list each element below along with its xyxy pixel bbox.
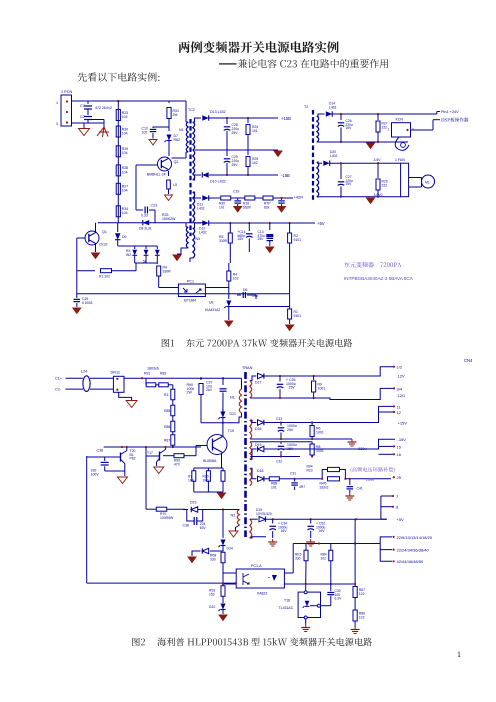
svg-text:330R: 330R (219, 239, 228, 243)
svg-text:D9: D9 (122, 235, 127, 239)
svg-text:25V: 25V (346, 182, 353, 186)
svg-text:L499: L499 (366, 478, 374, 482)
svg-text:D16: D16 (255, 427, 261, 431)
svg-text:C33: C33 (276, 417, 282, 421)
svg-text:25V: 25V (287, 428, 294, 432)
svg-text:N1: N1 (230, 396, 235, 400)
svg-text:C2-: C2- (55, 388, 62, 392)
svg-text:L432: L432 (329, 105, 337, 109)
svg-text:12V: 12V (398, 374, 405, 379)
svg-text:42/44/46/48/50: 42/44/46/48/50 (397, 559, 424, 564)
svg-text:DR11: DR11 (111, 371, 120, 375)
svg-text:101: 101 (219, 205, 225, 209)
svg-text:3.6V: 3.6V (374, 158, 382, 162)
svg-text:101: 101 (252, 129, 258, 133)
svg-text:D13 L432: D13 L432 (210, 110, 226, 114)
svg-text:104: 104 (122, 211, 128, 215)
svg-text:0.33: 0.33 (141, 214, 148, 218)
svg-text:C2: C2 (80, 115, 85, 119)
svg-text:D18: D18 (257, 469, 263, 473)
svg-text:TL431AC: TL431AC (279, 606, 294, 610)
svg-text:CN4: CN4 (464, 358, 473, 363)
svg-text:D6: D6 (243, 288, 247, 292)
svg-text:EP1384: EP1384 (184, 299, 196, 303)
svg-text:25V: 25V (289, 386, 296, 390)
svg-text:T18: T18 (284, 599, 290, 603)
svg-text:6.3V: 6.3V (335, 596, 343, 600)
svg-text:222: 222 (382, 125, 388, 129)
svg-text:M1: M1 (425, 181, 430, 185)
svg-text:C32: C32 (276, 460, 282, 464)
svg-text:D21: D21 (230, 412, 236, 416)
svg-text:562R: 562R (243, 205, 252, 209)
svg-text:C7: C7 (80, 104, 85, 108)
svg-text:R3: R3 (164, 393, 168, 397)
svg-text:TRAN: TRAN (242, 366, 253, 370)
svg-text:102: 102 (359, 616, 365, 620)
svg-text:2kV: 2kV (206, 388, 213, 392)
svg-text:1: 1 (56, 101, 58, 105)
svg-text:1XYSL520: 1XYSL520 (256, 512, 272, 516)
svg-text:25V: 25V (287, 447, 294, 451)
svg-text:104: 104 (122, 131, 128, 135)
svg-text:Pin1 +24V: Pin1 +24V (441, 110, 459, 114)
svg-text:104: 104 (122, 151, 128, 155)
svg-text:1R0: 1R0 (203, 478, 209, 482)
svg-text:W2: W2 (126, 253, 131, 257)
svg-text:16V: 16V (281, 529, 288, 533)
svg-text:C38: C38 (183, 524, 189, 528)
svg-text:CK32: CK32 (99, 243, 108, 247)
svg-text:82k: 82k (264, 205, 270, 209)
svg-text:R83: R83 (160, 372, 166, 376)
svg-text:1803x6: 1803x6 (147, 367, 159, 371)
svg-text:25: 25 (397, 475, 402, 480)
svg-text:102: 102 (252, 161, 258, 165)
svg-text:R91: R91 (144, 372, 150, 376)
svg-text:Q2: Q2 (174, 160, 179, 164)
svg-text:102: 102 (233, 277, 239, 281)
svg-text:D22: D22 (209, 605, 215, 609)
svg-text:L432: L432 (197, 207, 205, 211)
svg-text:222: 222 (382, 183, 388, 187)
svg-text:+15V: +15V (398, 420, 408, 425)
svg-text:1001: 1001 (316, 431, 324, 435)
svg-text:R1 102: R1 102 (99, 275, 110, 279)
svg-text:1 PCN: 1 PCN (61, 90, 72, 94)
svg-text:D17: D17 (255, 381, 261, 385)
svg-text:100V: 100V (91, 473, 100, 477)
svg-text:C19: C19 (233, 190, 239, 194)
svg-text:16V: 16V (319, 529, 326, 533)
svg-text:102: 102 (321, 556, 327, 560)
svg-text:R62: R62 (174, 138, 180, 142)
svg-text:3: 3 (56, 122, 58, 126)
svg-text:102: 102 (359, 592, 365, 596)
svg-text:KA823: KA823 (257, 592, 267, 596)
svg-text:PC1: PC1 (187, 280, 194, 284)
svg-text:T17: T17 (147, 451, 153, 455)
svg-text:22/9/10/13/14/18/20: 22/9/10/13/14/18/20 (397, 535, 433, 540)
svg-text:-15V: -15V (398, 437, 407, 442)
svg-text:N3: N3 (196, 237, 201, 241)
svg-text:2W: 2W (187, 391, 193, 395)
svg-text:152: 152 (209, 593, 215, 597)
svg-text:R85: R85 (164, 409, 170, 413)
svg-text:KCN: KCN (396, 118, 404, 122)
svg-text:L5: L5 (173, 183, 177, 187)
svg-text:25V: 25V (232, 131, 239, 135)
svg-text:C1+: C1+ (55, 377, 63, 381)
svg-text:1 FAN: 1 FAN (395, 158, 405, 162)
svg-text:-15B: -15B (281, 173, 290, 178)
svg-text:L24: L24 (81, 370, 87, 374)
svg-text:TC2: TC2 (188, 108, 195, 112)
svg-text:D10 L432: D10 L432 (210, 180, 226, 184)
svg-text:12G: 12G (398, 393, 406, 398)
svg-text:16: 16 (397, 452, 402, 457)
svg-text:104: 104 (122, 189, 128, 193)
svg-text:1: 1 (457, 650, 461, 659)
svg-text:22/24/34/36/38/40: 22/24/34/36/38/40 (397, 548, 430, 553)
svg-text:D8 2L31: D8 2L31 (139, 227, 152, 231)
svg-text:9101: 9101 (294, 238, 302, 242)
svg-text:C36: C36 (97, 449, 104, 453)
svg-text:L432: L432 (199, 231, 207, 235)
svg-text:25V: 25V (232, 163, 239, 167)
svg-text:C41: C41 (357, 487, 363, 491)
svg-text:+42R: +42R (294, 195, 304, 200)
svg-text:INTPBGBA3040AZ-2 6BAVA 8CA: INTPBGBA3040AZ-2 6BAVA 8CA (344, 276, 414, 281)
svg-text:L402: L402 (330, 154, 338, 158)
svg-text:BMBHLL-24: BMBHLL-24 (147, 173, 166, 177)
svg-text:25V: 25V (258, 237, 265, 241)
svg-text:D19: D19 (255, 443, 261, 447)
svg-text:N1: N1 (179, 128, 184, 132)
svg-text:16V: 16V (238, 237, 245, 241)
svg-text:1N5: 1N5 (252, 294, 258, 298)
svg-text:1R0: 1R0 (188, 478, 194, 482)
svg-text:3/4: 3/4 (397, 386, 403, 391)
svg-text:4R7: 4R7 (299, 485, 305, 489)
svg-text:D24: D24 (227, 547, 233, 551)
svg-text:3.6V0: 3.6V0 (374, 193, 383, 197)
svg-text:16V: 16V (346, 126, 353, 130)
svg-text:15: 15 (397, 444, 402, 449)
svg-text:N2: N2 (231, 514, 236, 518)
svg-text:0.0033: 0.0033 (82, 301, 92, 305)
svg-text:UE: UE (209, 301, 214, 305)
svg-text:330R: 330R (163, 270, 172, 274)
svg-text:D23: D23 (190, 501, 196, 505)
svg-text:+5V: +5V (397, 517, 405, 522)
svg-text:472 2kVx2: 472 2kVx2 (95, 106, 112, 110)
svg-text:150K2W: 150K2W (162, 217, 176, 221)
svg-text:1001: 1001 (318, 387, 326, 391)
svg-text:1001: 1001 (316, 449, 324, 453)
svg-text:P62: P62 (130, 457, 136, 461)
svg-text:470: 470 (174, 463, 180, 467)
svg-text:63V: 63V (200, 526, 207, 530)
svg-text:T19: T19 (228, 429, 235, 433)
svg-text:101: 101 (271, 486, 277, 490)
svg-text:12: 12 (397, 410, 402, 415)
svg-text:9101: 9101 (294, 314, 302, 318)
svg-text:R23: R23 (307, 468, 313, 472)
svg-text:R87: R87 (164, 439, 170, 443)
svg-text:2M: 2M (173, 113, 178, 117)
svg-text:R86: R86 (164, 425, 170, 429)
svg-text:333x2: 333x2 (320, 485, 329, 489)
svg-text:104: 104 (122, 170, 128, 174)
svg-text:330: 330 (295, 556, 301, 560)
svg-text:T2: T2 (304, 105, 308, 109)
svg-text:KIA431A2: KIA431A2 (205, 308, 220, 312)
svg-text:+5V: +5V (317, 221, 325, 226)
svg-text:1: 1 (388, 128, 390, 132)
svg-text:C23: C23 (151, 204, 158, 208)
svg-text:1/2: 1/2 (397, 365, 403, 370)
svg-text:C31: C31 (290, 472, 296, 476)
svg-text:102: 102 (142, 131, 148, 135)
svg-text:+15B: +15B (281, 116, 291, 121)
svg-text:104: 104 (122, 115, 128, 119)
svg-text:330: 330 (210, 558, 216, 562)
svg-text:PC1-A: PC1-A (251, 564, 262, 568)
svg-text:Q1: Q1 (102, 230, 107, 234)
svg-text:100R5W: 100R5W (160, 516, 174, 520)
svg-text:BU508A: BU508A (203, 459, 217, 463)
